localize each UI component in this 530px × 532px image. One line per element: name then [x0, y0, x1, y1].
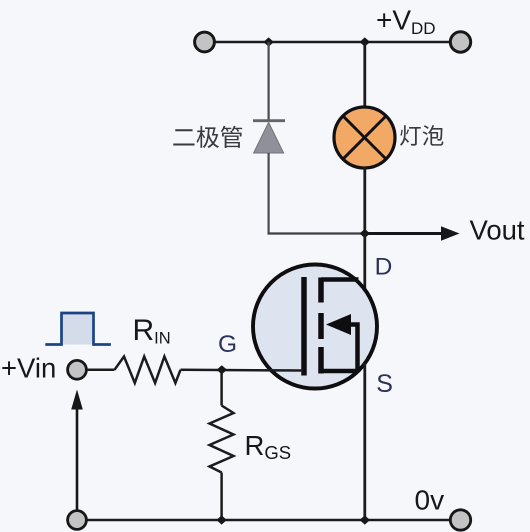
label 二极管	[173, 126, 242, 148]
MOSFET channel dashes	[318, 278, 324, 374]
lamp X cross	[343, 116, 386, 159]
resistor RIN zigzag	[115, 357, 181, 384]
MOSFET drain strap	[321, 277, 359, 282]
terminal top-left	[195, 32, 215, 52]
wire lamp branch upper	[363, 42, 366, 108]
lamp circle	[334, 107, 395, 168]
resistor RGS zigzag	[210, 406, 234, 473]
node top rail / diode branch	[263, 37, 273, 46]
diode triangle	[254, 122, 284, 153]
terminal bottom-right	[450, 510, 470, 530]
wire lamp to Vout node	[363, 167, 366, 234]
node Vout junction	[360, 229, 370, 238]
wire Vin terminal to RIN	[86, 369, 115, 372]
wire source lead	[363, 363, 366, 520]
node bottom rail / source	[360, 515, 370, 524]
MOSFET body-source connection	[349, 325, 358, 372]
diode cathode bar	[253, 119, 285, 122]
pulse waveform	[45, 313, 111, 345]
arrow input reference line	[76, 406, 79, 510]
wire top +VDD rail	[205, 41, 461, 44]
MOSFET gate bar	[301, 277, 307, 376]
terminal Vin	[68, 360, 87, 379]
svg-text:+Vin: +Vin	[1, 353, 56, 384]
wire bottom 0v rail	[77, 519, 461, 522]
svg-text:0v: 0v	[415, 485, 445, 516]
arrowhead Vout	[441, 226, 460, 240]
wire diode branch lower	[268, 153, 270, 234]
MOSFET body arrow	[326, 314, 351, 335]
wire diode to Vout node	[268, 232, 365, 234]
pulse waveform fill	[62, 313, 94, 345]
arrowhead input reference	[71, 390, 83, 410]
label 灯泡	[400, 125, 443, 146]
terminal top-right	[450, 32, 470, 52]
svg-text:S: S	[376, 370, 393, 398]
svg-text:G: G	[218, 331, 237, 358]
node gate / RGS junction	[217, 365, 227, 374]
svg-text:Vout: Vout	[470, 215, 525, 246]
wire RGS upper	[220, 370, 223, 406]
MOSFET source strap	[321, 369, 359, 374]
wire drain lead	[363, 234, 366, 290]
svg-text:D: D	[375, 254, 393, 281]
wire Vout line	[365, 232, 443, 235]
wire RGS lower	[220, 473, 223, 521]
wire diode branch upper	[268, 42, 270, 120]
transistor Q1 MOSFET body circle	[253, 265, 377, 389]
node top rail / lamp branch	[360, 37, 370, 46]
node bottom rail / RGS	[216, 515, 226, 524]
wire RIN to gate	[181, 369, 304, 372]
terminal bottom-left	[68, 511, 87, 530]
